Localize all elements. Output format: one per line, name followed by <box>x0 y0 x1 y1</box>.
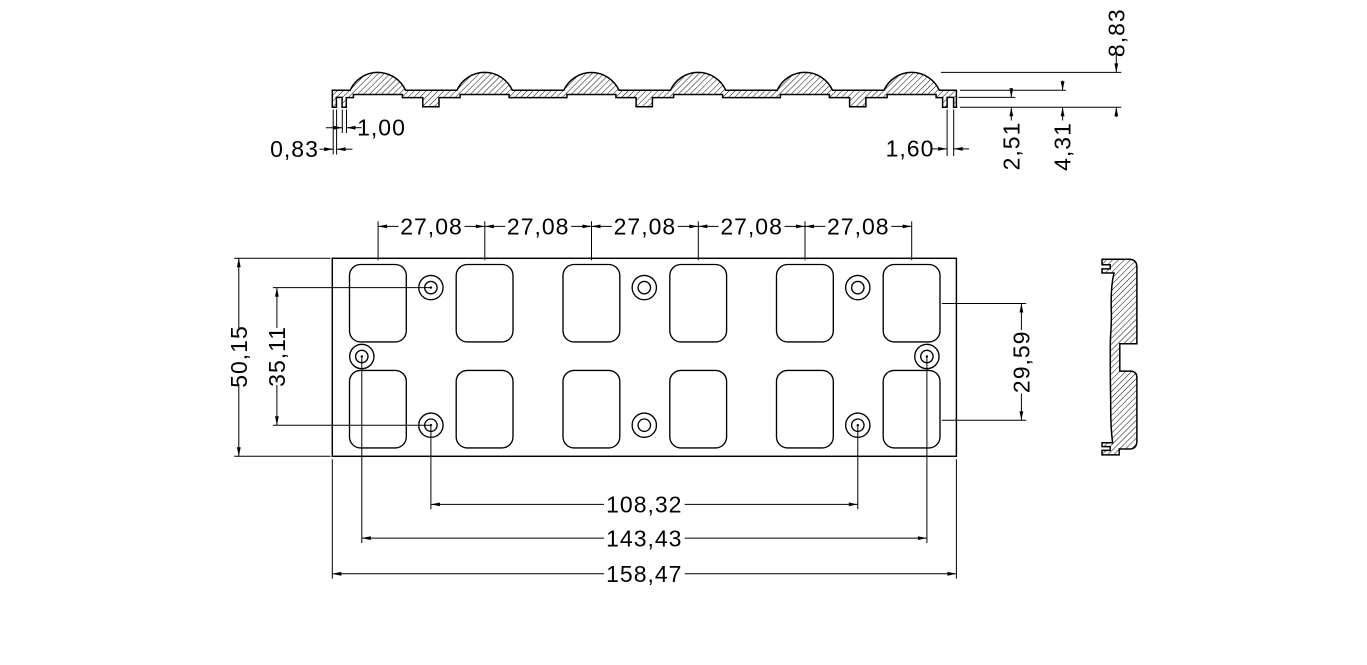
extension lines for dim 1,00 (second leg edges) <box>342 110 346 134</box>
extension lines for 27,08 chain (lens column centers) <box>378 221 912 260</box>
extension lines for 108,32 (from bottom holes) <box>431 425 858 509</box>
lens aperture column 6 row 1 <box>883 265 940 342</box>
svg-text:8,83: 8,83 <box>1103 8 1129 57</box>
dimension 35,11 line with arrows <box>275 288 279 426</box>
lens aperture column 3 row 2 <box>563 370 620 448</box>
svg-text:50,15: 50,15 <box>226 325 252 388</box>
screw hole bottom hole A (counterbored) <box>419 413 443 437</box>
side section profile (hatched) <box>1102 259 1137 455</box>
lens aperture column 4 row 2 <box>670 370 727 448</box>
hole center dot <box>430 424 432 426</box>
extension line at foot-bottom level (shared) <box>960 106 1121 108</box>
screw hole mid hole left (counterbored) <box>350 344 374 368</box>
dimension 8,83 vertical line with outside arrows <box>1114 52 1118 117</box>
dimension 29,59 line with arrows <box>1020 304 1024 421</box>
svg-text:35,11: 35,11 <box>264 326 290 387</box>
extension line at web underside level (for 2,51) <box>959 96 1016 98</box>
screw hole bottom hole B (counterbored) <box>632 413 656 437</box>
svg-text:0,83: 0,83 <box>270 136 319 162</box>
lens array cross-section profile (hatched) <box>332 72 956 107</box>
plate outline (plan view) <box>332 258 956 456</box>
lens aperture column 5 row 2 <box>777 370 834 448</box>
screw hole top hole A (counterbored) <box>419 275 443 299</box>
screw hole mid hole right (counterbored) <box>915 344 939 368</box>
lens aperture column 1 row 1 <box>350 265 407 342</box>
extension lines for dim 0,83 (left leg edges) <box>333 110 336 155</box>
extension lines for 35,11 (hole row centers) <box>273 288 431 426</box>
extension lines for 29,59 (lens row centers) <box>942 304 1026 421</box>
dimension 1,00 line with outside arrows <box>326 126 362 130</box>
lens aperture column 3 row 1 <box>563 265 620 342</box>
lens aperture column 5 row 1 <box>777 265 834 342</box>
hole center dot <box>857 424 859 426</box>
svg-text:27,08: 27,08 <box>400 214 463 240</box>
svg-text:4,31: 4,31 <box>1050 122 1076 171</box>
hole center dot <box>926 355 928 357</box>
extension lines for dim 1,60 (right foot slot edges) <box>947 110 954 157</box>
dimension 158,47 line with arrows <box>332 572 956 576</box>
svg-text:27,08: 27,08 <box>720 214 783 240</box>
dimension 4,31 vertical line with outside arrows <box>1061 81 1065 121</box>
svg-text:158,47: 158,47 <box>606 561 682 587</box>
lens aperture column 1 row 2 <box>350 370 407 448</box>
hole center dot <box>430 286 432 288</box>
dimension chain 27,08 x5 lines and arrows <box>378 225 912 229</box>
dimension 0,83 line with outside arrows <box>320 147 353 151</box>
extension lines for 143,43 (from mid holes) <box>362 357 927 544</box>
dimension 1,60 line with outside arrows <box>932 147 969 151</box>
lens aperture column 2 row 2 <box>456 370 513 448</box>
dimension 108,32 line with arrows <box>431 503 858 507</box>
svg-text:27,08: 27,08 <box>507 214 570 240</box>
svg-text:143,43: 143,43 <box>606 525 682 551</box>
svg-text:27,08: 27,08 <box>614 214 677 240</box>
svg-text:29,59: 29,59 <box>1009 331 1035 394</box>
lens aperture column 6 row 2 <box>883 370 940 448</box>
lens aperture column 2 row 1 <box>456 265 513 342</box>
svg-text:2,51: 2,51 <box>998 122 1024 171</box>
dimension 50,15 line with arrows <box>237 258 241 456</box>
screw hole top hole B (counterbored) <box>632 275 656 299</box>
dimension 143,43 line with arrows <box>362 536 927 540</box>
screw hole top hole C (counterbored) <box>846 275 870 299</box>
svg-text:1,60: 1,60 <box>886 136 935 162</box>
svg-text:108,32: 108,32 <box>606 492 682 518</box>
lens aperture column 4 row 1 <box>670 265 727 342</box>
extension line at dome-top level (for 8,83) <box>941 71 1121 73</box>
extension lines for 50,15 (plate top/bottom edges) <box>234 258 330 456</box>
svg-text:27,08: 27,08 <box>827 214 890 240</box>
svg-text:1,00: 1,00 <box>357 115 406 141</box>
hole center dot <box>361 355 363 357</box>
dimension 2,51 vertical line with outside arrows <box>1009 88 1013 121</box>
extension lines for 158,47 (plate side edges) <box>332 459 956 578</box>
screw hole bottom hole C (counterbored) <box>846 413 870 437</box>
extension line at top-surface level (for 4,31) <box>960 89 1066 91</box>
